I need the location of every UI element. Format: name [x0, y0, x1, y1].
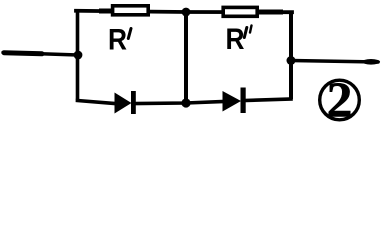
wire bottom right horizontal [244, 99, 291, 101]
wire input lead left [3, 53, 78, 56]
node middle top junction [182, 8, 191, 17]
wire middle vertical branch [184, 12, 188, 103]
wire input lead left thick half [4, 53, 42, 54]
node middle bottom junction [181, 98, 190, 107]
resistor R1 lead thick left [99, 9, 112, 14]
wire bottom left horizontal [78, 101, 116, 104]
resistor R2 lead thick right [259, 10, 283, 15]
wire output lead right [291, 61, 378, 63]
label R'' prime 2 [250, 26, 252, 33]
resistor R1 body [113, 6, 149, 15]
wire bottom middle horizontal [134, 102, 223, 104]
diode D1 triangle [115, 93, 132, 114]
diode D2 triangle [223, 91, 242, 112]
wire left vertical branch [76, 11, 80, 101]
wire top horizontal [76, 11, 292, 12]
svg-text:R: R [226, 23, 245, 56]
label R' prime [128, 29, 131, 39]
figure number circle [320, 80, 360, 120]
label R'' prime 1 [244, 28, 247, 38]
node input junction [74, 51, 83, 60]
svg-text:R: R [108, 24, 127, 57]
node output junction [287, 56, 296, 65]
resistor R2 body [223, 7, 257, 16]
wire output lead right blob [362, 59, 380, 65]
diode D1 cathode bar [131, 91, 136, 114]
diode D2 cathode bar [241, 88, 246, 114]
wire right vertical branch [289, 12, 293, 100]
svg-text:2: 2 [327, 71, 353, 127]
